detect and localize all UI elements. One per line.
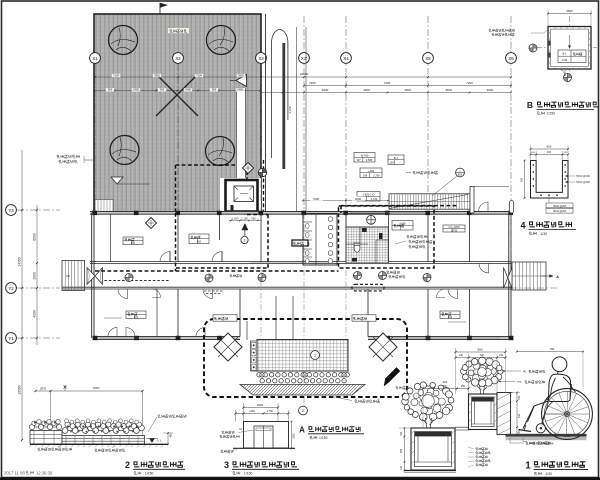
- toilet tag box: [292, 240, 308, 246]
- detail1 wheelchair person leg: [523, 401, 550, 429]
- corridor upper wall: [90, 261, 511, 263]
- circled number 3 marker: [241, 236, 248, 243]
- detailB wall studs: [554, 28, 556, 29]
- svg-text:100: 100: [131, 242, 136, 245]
- floor drain marker 5: [258, 274, 266, 282]
- basin circle cross: [367, 215, 376, 224]
- detailB door swing bottom: [558, 69, 565, 76]
- porch diamond left: [214, 333, 242, 361]
- dimension 7000 4000 row: [303, 200, 388, 202]
- svg-text:7200: 7200: [466, 81, 473, 85]
- toilet stalls: [303, 221, 312, 223]
- svg-text:750: 750: [550, 347, 555, 351]
- detail2 left planter shrubs: [29, 424, 34, 429]
- elevator cab: [234, 186, 254, 202]
- svg-text:2400: 2400: [237, 88, 243, 92]
- interior walls lower row: [177, 289, 179, 337]
- detail4 right leader notes: [565, 175, 575, 177]
- svg-text:240: 240: [459, 354, 464, 357]
- detail1 leader foundation note: [510, 438, 524, 443]
- detail3 elevator hall box: [244, 422, 289, 449]
- detail4 left dim: [524, 161, 526, 199]
- canopy left cell stack: [251, 341, 258, 371]
- demolition dashed around lobby rooms: [247, 214, 268, 216]
- diamond symbol near elevator: [243, 163, 254, 174]
- wood deck hatched area: [94, 14, 261, 213]
- detail4 bottom leader boxes: [548, 195, 550, 203]
- tree circle bottom-right: [206, 137, 235, 166]
- svg-text:Y3: Y3: [8, 208, 14, 213]
- Y2 axis extension right: [511, 287, 558, 289]
- detail2 main planter box: [62, 436, 145, 445]
- detail3 door: [254, 426, 273, 448]
- axis grid vertical dash-dot lines: [94, 64, 96, 213]
- left exterior stair: [62, 261, 85, 291]
- yard east wall lines: [265, 14, 267, 213]
- detail1 left dim stack: [404, 428, 406, 471]
- section bubble with leader: [456, 168, 465, 177]
- door lower room 2: [203, 289, 213, 299]
- deck leader note right: [413, 171, 438, 174]
- svg-text:3600: 3600: [566, 9, 573, 13]
- column grid dash-dot verticals through band: [260, 213, 262, 340]
- door lower right room: [448, 289, 458, 299]
- svg-text:4: 4: [520, 221, 525, 231]
- svg-text:14300: 14300: [18, 257, 22, 266]
- stair door arc: [479, 202, 489, 212]
- shrub cross circles: [260, 373, 264, 377]
- detailB door dark posts: [548, 41, 550, 46]
- svg-text:6500: 6500: [33, 233, 37, 241]
- door lower room extra: [152, 289, 161, 298]
- svg-text:2000: 2000: [33, 272, 37, 280]
- detailB leader note: [489, 29, 514, 32]
- deck diagonal cross mark: [156, 74, 198, 116]
- columns on bottom wall: [93, 336, 98, 340]
- detail1 mid dim: [423, 388, 469, 390]
- svg-text:2400: 2400: [185, 88, 191, 92]
- top dimension row 7200: [304, 85, 511, 87]
- furniture line lower rooms: [104, 317, 122, 319]
- svg-text:197: 197: [356, 158, 361, 162]
- detail3 right dim: [291, 422, 293, 449]
- circled number 2 below walkway: [299, 406, 308, 415]
- detail1 terrace between boxes: [455, 426, 469, 428]
- axis bubble Y2: [17, 287, 60, 289]
- svg-text:2,120: 2,120: [288, 106, 292, 113]
- svg-text:7000: 7000: [313, 197, 320, 201]
- entrance walkway hatched: [240, 385, 365, 396]
- wet area tiled floor: [346, 227, 389, 263]
- svg-text:3600: 3600: [445, 88, 452, 92]
- svg-text:N 1,000: N 1,000: [244, 269, 254, 273]
- detail1 tree lower canopy: [402, 382, 454, 421]
- detail1 ground slope note: [523, 438, 527, 442]
- svg-text:450: 450: [521, 177, 524, 182]
- detail2 main planter shrubs: [62, 428, 68, 434]
- svg-text:X3': X3': [301, 56, 307, 61]
- detail1 base line: [404, 470, 456, 472]
- floor drain marker 6: [423, 274, 431, 282]
- detail2 left planter box: [30, 431, 62, 445]
- svg-text:1,802-1-D: 1,802-1-D: [363, 193, 375, 197]
- svg-text:: 1/30: : 1/30: [539, 232, 548, 236]
- room tag B-1: [388, 155, 404, 165]
- elevator up arrow: [242, 224, 248, 231]
- detail1 leader soil note 2: [500, 381, 515, 383]
- svg-text:140: 140: [400, 465, 403, 470]
- svg-text:101: 101: [134, 316, 139, 319]
- svg-text:100: 100: [197, 241, 202, 244]
- tree circle top-left: [109, 26, 138, 55]
- svg-text:X5: X5: [425, 56, 431, 61]
- axis bubble X6: [506, 53, 517, 64]
- corridor lower wall: [62, 286, 511, 288]
- svg-text:450: 450: [547, 151, 552, 154]
- svg-text:250: 250: [461, 385, 466, 388]
- svg-text:450: 450: [518, 413, 521, 418]
- walkway leader note: [330, 396, 352, 401]
- shrub circles row1: [257, 373, 261, 377]
- demolition dashed boundary in deck: [176, 164, 238, 166]
- svg-text:N-99: N-99: [562, 59, 568, 62]
- left fire door bowtie: [87, 268, 95, 285]
- demolition dashed corridor line: [95, 270, 339, 272]
- svg-text:102: 102: [448, 316, 453, 319]
- door upper right room: [479, 263, 489, 273]
- toilet room walls: [303, 214, 337, 266]
- detail3 dimension lines: [244, 407, 279, 409]
- elevator lobby white area: [220, 178, 261, 213]
- svg-text:3: 3: [224, 460, 229, 470]
- svg-text:198: 198: [363, 174, 368, 178]
- floor drain marker 3: [354, 272, 362, 280]
- svg-text:1,150: 1,150: [241, 217, 248, 221]
- svg-text:B-1: B-1: [562, 52, 567, 56]
- svg-text:3600: 3600: [487, 88, 494, 92]
- svg-text:1/150: 1/150: [319, 436, 328, 440]
- toilet basins: [328, 217, 333, 222]
- door upper room 2: [212, 252, 222, 262]
- deck walkway white strip: [237, 88, 246, 182]
- svg-text:7104: 7104: [196, 73, 202, 77]
- door toilet: [349, 253, 358, 262]
- svg-text:X4: X4: [343, 56, 349, 61]
- floor drain marker 2: [205, 274, 213, 282]
- elevator door marks: [237, 211, 250, 213]
- room tag classroom mid: [189, 234, 209, 244]
- detail1 tree upper trunk: [477, 385, 487, 397]
- X6 axis extension down: [510, 213, 512, 250]
- detail2 GL marker: [150, 439, 155, 443]
- room tag wonjang: [392, 221, 413, 231]
- porch diamond right: [369, 333, 397, 361]
- elevator dimension texts: [228, 216, 262, 221]
- detail2 dimension line: [36, 390, 143, 392]
- demolition dashed line above wall: [341, 205, 457, 207]
- svg-text:HD10 @200: HD10 @200: [553, 205, 567, 208]
- dashed line near WC: [263, 160, 265, 213]
- svg-text:Y2: Y2: [8, 286, 14, 291]
- detail4 top dims: [531, 148, 569, 150]
- svg-text:2: 2: [125, 460, 130, 470]
- svg-text:B-1: B-1: [394, 156, 399, 160]
- detail1 step wall right of upper box: [497, 393, 511, 435]
- svg-text:HD13 @200: HD13 @200: [553, 210, 567, 213]
- window lines upper wall: [350, 212, 425, 214]
- canopy posts: [275, 296, 277, 340]
- svg-text:3552: 3552: [154, 73, 160, 77]
- capsule column right: [509, 201, 513, 214]
- columns on top wall: [92, 211, 97, 215]
- axis bubble X2: [173, 53, 184, 64]
- wet room upper: [346, 214, 389, 228]
- detail2 bottom leader notes: [38, 448, 72, 451]
- svg-text:A: A: [556, 275, 559, 279]
- svg-text:40: 40: [523, 370, 527, 374]
- svg-text:1150: 1150: [249, 409, 255, 413]
- tree circle top-right: [207, 26, 236, 55]
- room tag lower left: [126, 311, 146, 319]
- internal staircase: [389, 194, 470, 209]
- svg-text:N-700: N-700: [361, 154, 369, 158]
- detail2 right small dims: [167, 433, 169, 444]
- porch demolition dashed rounded boundary: [204, 319, 407, 397]
- detail1 tree lower trunk: [422, 418, 434, 432]
- svg-text:900: 900: [212, 88, 217, 92]
- svg-text:+462: +462: [368, 169, 375, 173]
- detail2 extent lines: [50, 391, 52, 443]
- demolition dashed at lobby: [246, 165, 248, 180]
- svg-text:240: 240: [499, 354, 504, 357]
- drain leader note: [387, 271, 399, 274]
- detailB inner table: [558, 50, 586, 63]
- svg-text:3552: 3552: [238, 73, 244, 77]
- svg-text:G.L: G.L: [157, 439, 162, 443]
- axis bubble X4: [341, 53, 352, 64]
- dark fixture blocks: [362, 228, 367, 232]
- svg-text:150: 150: [518, 395, 521, 400]
- deck inner dimension row2: [94, 90, 261, 92]
- detail1 wheelchair footplate: [519, 430, 532, 432]
- svg-text:1750: 1750: [267, 409, 273, 413]
- svg-text:7083: 7083: [93, 386, 100, 390]
- svg-text:: 1/150: : 1/150: [143, 472, 153, 476]
- detail1 right dim stack: [516, 393, 518, 435]
- door upper room 1: [160, 252, 170, 262]
- detail3 ground line: [233, 447, 295, 449]
- svg-text:2,505: 2,505: [366, 158, 373, 162]
- svg-text:600: 600: [400, 448, 403, 453]
- svg-text:UP: UP: [66, 274, 70, 278]
- svg-text:X2: X2: [175, 56, 181, 61]
- svg-text:B: B: [527, 100, 533, 110]
- svg-text:590: 590: [251, 217, 256, 221]
- svg-text:600: 600: [547, 145, 552, 149]
- porch tag box left: [213, 315, 237, 321]
- svg-text:2350: 2350: [293, 433, 296, 439]
- porch tag box right: [352, 315, 376, 321]
- svg-text:800: 800: [478, 348, 483, 352]
- door bottom wall mid: [196, 328, 205, 337]
- detail4 U-section outer: [531, 161, 569, 199]
- svg-text:HD13 @200: HD13 @200: [576, 181, 590, 184]
- door bottom wall left: [108, 328, 117, 337]
- svg-text:2.8%: 2.8%: [529, 441, 536, 445]
- detail2 leader existing curb: [148, 417, 157, 432]
- ceiling tag right: [443, 225, 465, 232]
- detailB warehouse walls: [548, 27, 591, 70]
- detail1 lower planter box: [411, 428, 455, 470]
- flag mark top: [159, 3, 161, 14]
- room tag classroom left: [123, 237, 143, 245]
- svg-text:2875: 2875: [40, 386, 47, 390]
- svg-text:3: 3: [244, 239, 246, 243]
- svg-text:10000: 10000: [18, 385, 22, 394]
- svg-text:150: 150: [400, 431, 403, 436]
- svg-text:4300: 4300: [33, 310, 37, 318]
- svg-text:Y1: Y1: [8, 336, 14, 341]
- entry direction arrow: [386, 368, 401, 383]
- svg-text:900: 900: [160, 88, 165, 92]
- deck strip arrow mark: [236, 75, 247, 87]
- left vertical dimension line outer: [21, 150, 23, 440]
- deck top text: [168, 28, 189, 33]
- deck inner dimension numbers row1: [112, 74, 120, 77]
- detail1 wheelchair big wheel: [542, 389, 593, 440]
- svg-text:900: 900: [108, 88, 113, 92]
- play slide arch: [272, 30, 288, 159]
- detail2 ground line: [30, 443, 168, 445]
- svg-text:320: 320: [480, 354, 485, 357]
- svg-text:HD10 @200: HD10 @200: [576, 175, 590, 178]
- detail1 wheelchair caster: [536, 424, 545, 433]
- bench dashes lower: [204, 291, 224, 294]
- svg-text:2,700: 2,700: [451, 229, 458, 232]
- svg-text:600: 600: [443, 380, 448, 384]
- svg-text:2,765: 2,765: [373, 174, 380, 178]
- detail1 top dim: [456, 351, 506, 353]
- tree circle bottom-left: [110, 136, 139, 165]
- svg-text:1: 1: [314, 354, 316, 358]
- left wing bench dashed: [100, 280, 170, 282]
- svg-text:3600: 3600: [404, 88, 411, 92]
- svg-text:500: 500: [443, 385, 448, 388]
- circled number 1 in canopy: [311, 351, 320, 360]
- detail1 wheelchair person torso: [549, 374, 571, 401]
- svg-text:12:36:39: 12:36:39: [36, 471, 53, 476]
- diamond symbol room A: [146, 218, 157, 229]
- svg-text:4000: 4000: [355, 197, 362, 201]
- svg-text:3600: 3600: [322, 88, 329, 92]
- stair landing bar: [470, 187, 474, 214]
- shrub circles row2: [260, 379, 264, 383]
- detailB centerlines: [536, 47, 597, 49]
- svg-text:1,190: 1,190: [232, 217, 239, 221]
- detail1 tree upper canopy: [461, 357, 503, 387]
- svg-text:*70: *70: [517, 380, 522, 384]
- detail1 leader soil note 1: [504, 370, 521, 372]
- svg-text:X1: X1: [92, 56, 98, 61]
- axis bubble Y3: [17, 209, 60, 211]
- axis bubble Y1: [17, 337, 60, 339]
- room tag N-700: [354, 153, 375, 163]
- svg-text:7200: 7200: [309, 81, 316, 85]
- shower partitions: [359, 227, 361, 244]
- svg-text:X6: X6: [508, 56, 514, 61]
- top dimension row 3600: [261, 92, 511, 94]
- room tag 1802: [357, 192, 380, 202]
- svg-text:2017 11 08: 2017 11 08: [4, 471, 25, 476]
- detailB survey marker left: [529, 44, 537, 52]
- demolition dashed rect around core: [339, 206, 435, 268]
- svg-text:X3: X3: [258, 56, 264, 61]
- wc fixture: [354, 244, 360, 252]
- room tag lower right: [440, 311, 460, 319]
- svg-text:1/150: 1/150: [547, 112, 556, 116]
- floor drain marker 4: [379, 272, 387, 280]
- svg-text:250: 250: [426, 385, 431, 388]
- detail1 wheelchair person arm: [545, 378, 556, 401]
- right exterior stair: [512, 262, 546, 290]
- detail4 rebar dots: [533, 164, 535, 166]
- building top wall Y3: [90, 211, 511, 214]
- svg-text:2: 2: [302, 409, 304, 413]
- svg-text:2900: 2900: [257, 403, 264, 407]
- axis bubble X1: [90, 53, 101, 64]
- axis bubble X5: [423, 53, 434, 64]
- slide pole thick bar: [282, 43, 285, 169]
- svg-text:1: 1: [525, 461, 531, 472]
- building left wall: [91, 213, 93, 338]
- survey marker near WC: [258, 168, 266, 176]
- door lower room 1: [118, 289, 128, 299]
- detail1 wheelchair frame: [542, 384, 572, 425]
- pergola canopy grid: [257, 340, 348, 372]
- building right wall: [508, 213, 510, 338]
- svg-text:7200: 7200: [384, 81, 391, 85]
- axis bubble X3': [299, 53, 310, 64]
- detailB down arrow leader: [569, 35, 571, 46]
- svg-text:104: 104: [389, 161, 394, 165]
- leader notes right of core: [407, 236, 427, 239]
- right fire door bowtie: [504, 268, 508, 289]
- building bottom wall Y1 right part: [368, 337, 511, 340]
- svg-text:-: -: [400, 162, 401, 165]
- left wing tag box: [177, 214, 179, 262]
- right stair arrow: [541, 275, 553, 277]
- small dashed bench rect: [352, 284, 384, 291]
- svg-text:2400: 2400: [133, 88, 139, 92]
- deck leader note: [57, 155, 80, 158]
- top dimension row 24600: [94, 76, 511, 78]
- detail1 wheelchair clearance dim: [517, 351, 583, 353]
- svg-text:A: A: [299, 426, 305, 435]
- elevator shaft walls: [226, 180, 258, 212]
- svg-text:N-88: N-88: [400, 222, 406, 226]
- svg-text:: 1/30: : 1/30: [544, 472, 553, 476]
- deck down arrow mark: [111, 177, 123, 184]
- svg-text:: 1/150: : 1/150: [242, 472, 252, 476]
- left vertical dimension line inner: [36, 205, 38, 345]
- detail1 upper planter box: [469, 394, 498, 430]
- svg-text:7104: 7104: [113, 73, 119, 77]
- room tag +462: [360, 168, 382, 178]
- svg-text:3600: 3600: [363, 88, 370, 92]
- demolition dashed vertical at X2 area: [175, 213, 177, 271]
- axis bubble X3: [256, 53, 267, 64]
- detail1 wheelchair person head: [552, 357, 567, 372]
